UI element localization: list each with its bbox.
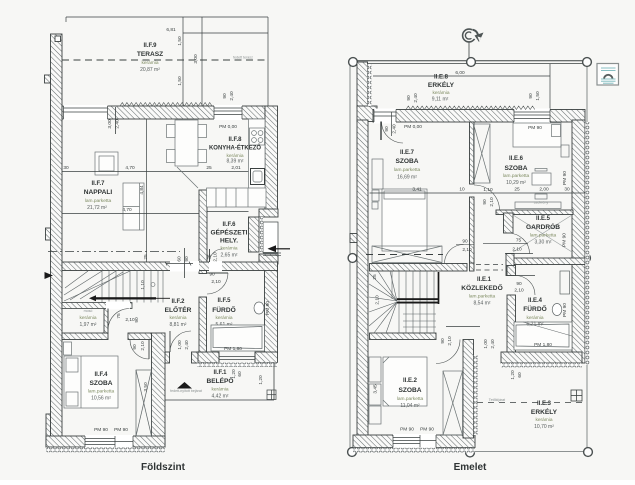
svg-text:60: 60	[177, 256, 183, 262]
svg-text:3,50: 3,50	[143, 382, 149, 392]
svg-text:11,04 m²: 11,04 m²	[400, 403, 420, 409]
svg-text:lam.parketta: lam.parketta	[530, 233, 557, 239]
svg-text:PM 90: PM 90	[420, 427, 434, 433]
svg-text:1,20: 1,20	[510, 370, 516, 380]
svg-text:lam.parketta: lam.parketta	[503, 173, 530, 179]
svg-text:25: 25	[514, 187, 520, 193]
svg-text:4,70: 4,70	[125, 165, 135, 171]
svg-text:2,40: 2,40	[115, 119, 121, 129]
svg-text:10: 10	[459, 187, 465, 193]
svg-text:8,39 m²: 8,39 m²	[227, 159, 244, 165]
svg-text:90: 90	[134, 317, 140, 323]
svg-text:PM 0,00: PM 0,00	[219, 124, 237, 130]
svg-text:2,10: 2,10	[211, 279, 221, 285]
svg-text:fedett terasz: fedett terasz	[233, 56, 253, 60]
svg-text:1,00: 1,00	[483, 339, 489, 349]
svg-text:PM 90: PM 90	[562, 171, 568, 185]
svg-text:25: 25	[206, 165, 212, 171]
svg-text:NAPPALI: NAPPALI	[84, 189, 113, 196]
svg-text:Emelet: Emelet	[454, 462, 487, 473]
svg-text:90: 90	[462, 239, 468, 245]
svg-text:2,00: 2,00	[539, 187, 549, 193]
svg-text:75: 75	[516, 238, 522, 244]
svg-text:2,10: 2,10	[140, 341, 146, 351]
svg-text:10,70 m²: 10,70 m²	[534, 424, 554, 430]
svg-text:II.E.1: II.E.1	[477, 277, 492, 283]
svg-text:II.E.8: II.E.8	[434, 75, 449, 81]
svg-text:90: 90	[406, 95, 412, 101]
svg-text:II.F.4: II.F.4	[94, 372, 108, 378]
svg-text:1,00: 1,00	[177, 340, 183, 350]
svg-text:kerámia: kerámia	[526, 315, 543, 321]
svg-text:2,40: 2,40	[392, 124, 398, 134]
svg-text:16,69 m²: 16,69 m²	[397, 175, 417, 181]
svg-text:90: 90	[482, 199, 488, 205]
svg-text:II.E.2: II.E.2	[403, 378, 418, 384]
svg-text:1,20: 1,20	[231, 369, 237, 379]
svg-text:2,10: 2,10	[512, 247, 522, 253]
svg-text:kerámia: kerámia	[169, 315, 186, 321]
svg-text:II.F.5: II.F.5	[217, 298, 231, 304]
svg-text:90: 90	[528, 93, 534, 99]
svg-text:II.F.6: II.F.6	[222, 222, 236, 228]
svg-text:PM 90: PM 90	[528, 125, 542, 131]
svg-text:lam.parketta: lam.parketta	[85, 198, 112, 204]
svg-text:75: 75	[207, 254, 213, 260]
svg-text:PM 90: PM 90	[94, 427, 108, 433]
svg-text:2,40: 2,40	[229, 91, 235, 101]
svg-text:PM 90: PM 90	[400, 427, 414, 433]
svg-text:20,87 m²: 20,87 m²	[140, 67, 160, 73]
svg-text:1,50: 1,50	[535, 91, 541, 101]
svg-text:3,41: 3,41	[412, 187, 422, 193]
svg-text:2,01: 2,01	[231, 165, 241, 171]
svg-text:9,11 m²: 9,11 m²	[432, 97, 449, 103]
svg-text:3,00: 3,00	[193, 54, 199, 64]
svg-text:2,10: 2,10	[213, 252, 219, 262]
svg-text:SZOBA: SZOBA	[504, 165, 527, 172]
svg-text:Földszint: Földszint	[141, 462, 186, 473]
svg-text:1,97 m²: 1,97 m²	[80, 322, 97, 328]
svg-text:60: 60	[517, 372, 523, 378]
svg-text:KONYHA-ÉTKEZŐ: KONYHA-ÉTKEZŐ	[209, 143, 261, 152]
svg-text:FÜRDŐ: FÜRDŐ	[523, 304, 546, 313]
svg-text:ERKÉLY: ERKÉLY	[531, 407, 558, 416]
svg-text:II.F.9: II.F.9	[143, 43, 157, 49]
svg-text:6,81: 6,81	[166, 27, 176, 33]
svg-text:SZOBA: SZOBA	[89, 380, 112, 387]
svg-text:6,00: 6,00	[455, 70, 465, 76]
svg-text:1,50: 1,50	[177, 76, 183, 86]
svg-text:60: 60	[237, 371, 243, 377]
svg-text:mosó: mosó	[84, 309, 93, 313]
svg-text:2,10: 2,10	[462, 247, 472, 253]
svg-text:3,45: 3,45	[373, 384, 379, 394]
svg-text:SZOBA: SZOBA	[395, 158, 418, 165]
svg-text:GARDRÓB: GARDRÓB	[526, 222, 560, 231]
svg-text:TERASZ: TERASZ	[137, 51, 163, 58]
svg-text:lam.parketta: lam.parketta	[394, 167, 421, 173]
svg-text:8,54 m²: 8,54 m²	[474, 301, 491, 307]
svg-text:8,81 m²: 8,81 m²	[170, 322, 187, 328]
svg-text:90: 90	[222, 93, 228, 99]
svg-text:II.E.7: II.E.7	[400, 150, 415, 156]
svg-text:PM 90: PM 90	[265, 301, 271, 315]
svg-text:4,70: 4,70	[122, 207, 132, 213]
svg-text:ERKÉLY: ERKÉLY	[428, 80, 455, 89]
svg-text:30: 30	[63, 165, 69, 171]
svg-text:PM 90: PM 90	[562, 303, 568, 317]
svg-text:szekrény: szekrény	[534, 201, 549, 205]
svg-text:4,42 m²: 4,42 m²	[212, 394, 229, 400]
svg-text:10,29 m²: 10,29 m²	[506, 180, 526, 186]
svg-text:2,40: 2,40	[490, 339, 496, 349]
svg-text:2,65 m²: 2,65 m²	[221, 253, 238, 259]
svg-text:2,40: 2,40	[184, 340, 190, 350]
svg-text:KÖZLEKEDŐ: KÖZLEKEDŐ	[461, 283, 502, 292]
svg-text:PM 90: PM 90	[562, 233, 568, 247]
svg-text:90: 90	[384, 126, 390, 132]
svg-text:II.E.3: II.E.3	[537, 401, 552, 407]
svg-text:II.F.8: II.F.8	[228, 137, 242, 143]
svg-text:3,00: 3,00	[107, 119, 113, 129]
svg-text:kerámia: kerámia	[211, 387, 228, 393]
svg-text:25: 25	[143, 254, 149, 260]
svg-text:1,50: 1,50	[177, 36, 183, 46]
svg-text:1,20: 1,20	[258, 375, 264, 385]
svg-text:90: 90	[209, 272, 215, 278]
svg-text:90: 90	[132, 344, 138, 350]
svg-text:II.F.1: II.F.1	[213, 370, 227, 376]
svg-text:Tetőkijárat: Tetőkijárat	[489, 398, 505, 402]
svg-text:lam.parketta: lam.parketta	[397, 396, 424, 402]
svg-text:BELÉPŐ: BELÉPŐ	[206, 376, 233, 385]
svg-text:II.F.2: II.F.2	[171, 299, 185, 305]
svg-text:kerámia: kerámia	[141, 60, 158, 66]
svg-text:lam.parketta: lam.parketta	[88, 389, 115, 395]
svg-text:2,40: 2,40	[413, 93, 419, 103]
svg-text:2,10: 2,10	[489, 197, 495, 207]
svg-text:2,10: 2,10	[514, 288, 524, 294]
svg-text:GÉPÉSZETI: GÉPÉSZETI	[210, 228, 247, 237]
svg-text:PM 0,00: PM 0,00	[404, 124, 422, 130]
svg-text:10,56 m²: 10,56 m²	[91, 396, 111, 402]
svg-text:25: 25	[372, 274, 378, 280]
svg-text:1,10: 1,10	[140, 280, 146, 290]
svg-text:90: 90	[184, 256, 190, 262]
svg-text:II.E.4: II.E.4	[528, 298, 543, 304]
svg-text:kerámia: kerámia	[220, 246, 237, 252]
svg-text:PM 1,80: PM 1,80	[534, 342, 552, 348]
svg-text:SZOBA: SZOBA	[398, 387, 421, 394]
svg-text:PM 90: PM 90	[114, 427, 128, 433]
svg-text:II.E.6: II.E.6	[509, 156, 524, 162]
svg-text:HELY.: HELY.	[220, 238, 238, 245]
svg-text:21,72 m²: 21,72 m²	[87, 205, 107, 211]
svg-text:3,30 m²: 3,30 m²	[535, 240, 552, 246]
svg-text:kerámia: kerámia	[432, 90, 449, 96]
svg-text:90: 90	[440, 338, 446, 344]
svg-text:fedett-nyitott bejárat: fedett-nyitott bejárat	[170, 389, 202, 393]
svg-text:6,21 m²: 6,21 m²	[527, 322, 544, 328]
svg-text:kerámia: kerámia	[79, 315, 96, 321]
svg-text:kerámia: kerámia	[535, 417, 552, 423]
svg-text:90: 90	[516, 281, 522, 287]
svg-text:2,10: 2,10	[375, 295, 381, 305]
svg-text:2,10: 2,10	[447, 336, 453, 346]
svg-text:75: 75	[116, 313, 122, 319]
svg-text:FÜRDŐ: FÜRDŐ	[212, 305, 235, 314]
svg-text:ELŐTÉR: ELŐTÉR	[165, 305, 192, 314]
svg-text:2,10: 2,10	[125, 317, 135, 323]
svg-text:30: 30	[564, 187, 570, 193]
svg-text:II.E.5: II.E.5	[536, 216, 551, 222]
svg-text:kerámia: kerámia	[215, 315, 232, 321]
svg-text:4,84: 4,84	[139, 185, 145, 195]
svg-text:lam.parketta: lam.parketta	[469, 294, 496, 300]
svg-text:II.F.7: II.F.7	[91, 181, 105, 187]
svg-text:PM 1,80: PM 1,80	[224, 346, 242, 352]
